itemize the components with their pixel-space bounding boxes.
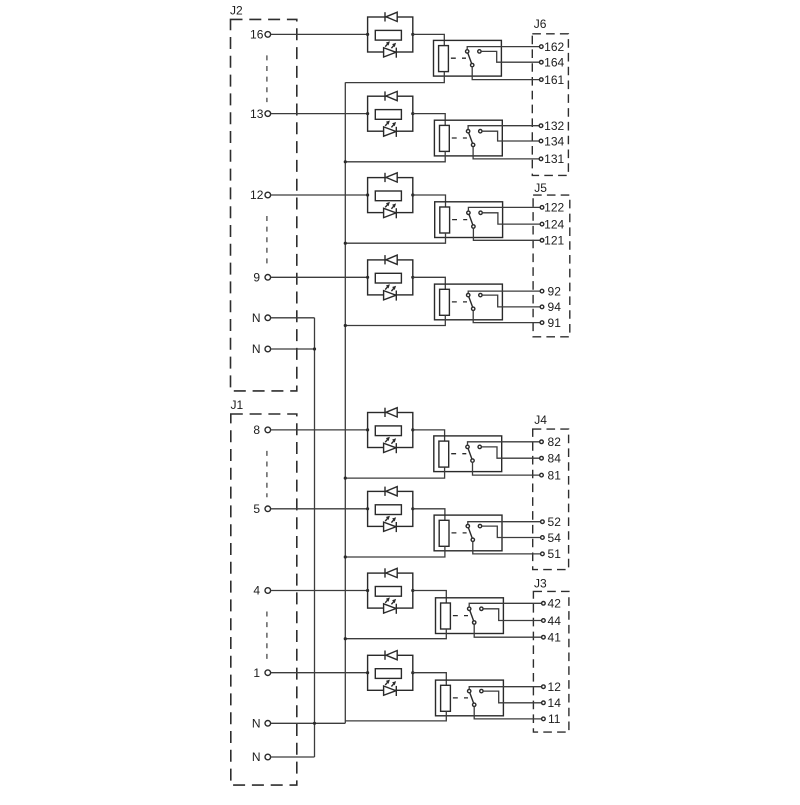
terminal N (J1 upper)	[265, 721, 271, 727]
svg-text:J6: J6	[534, 17, 547, 31]
relay coupling dashed link channel 7	[453, 615, 468, 617]
wire output 164	[481, 51, 539, 62]
svg-text:51: 51	[548, 547, 562, 561]
wire N (J1 upper) to coil-return bus	[271, 722, 346, 724]
dashed omitted-pins stub 12-9	[266, 216, 268, 266]
svg-text:J5: J5	[534, 181, 547, 195]
relay coupling dashed link channel 4	[452, 301, 467, 303]
diode channel 3 (reverse protection)	[385, 173, 397, 182]
relay armature channel 7	[469, 609, 474, 623]
relay coil channel 8	[441, 685, 451, 711]
terminal 8	[265, 427, 271, 433]
input network outline channel 7	[368, 573, 413, 608]
diode channel 4 (reverse protection)	[385, 255, 397, 264]
wire output 91	[473, 311, 540, 323]
resistor channel 6	[375, 505, 401, 515]
relay armature channel 1	[467, 51, 472, 65]
diode channel 2 (reverse protection)	[385, 91, 397, 100]
wire output 94	[482, 295, 540, 307]
terminal 81	[540, 473, 544, 477]
LED channel 3	[384, 202, 397, 218]
svg-text:132: 132	[544, 119, 564, 133]
connector J4	[533, 429, 569, 569]
junction input-right channel 8	[411, 671, 414, 674]
wire output 82	[468, 442, 540, 445]
relay moving contact node channel 6	[471, 538, 474, 541]
connector J5	[533, 195, 570, 337]
relay coil channel 6	[439, 520, 449, 546]
resistor channel 2	[375, 110, 401, 120]
svg-text:1: 1	[253, 666, 260, 680]
terminal 5	[265, 506, 271, 512]
input network outline channel 4	[368, 260, 413, 295]
relay outline channel 6	[434, 515, 502, 551]
svg-text:J1: J1	[231, 398, 244, 412]
LED channel 2	[384, 121, 397, 137]
wire output 11	[474, 707, 541, 719]
wire to relay coil channel 3	[413, 195, 446, 207]
diode channel 8 (reverse protection)	[385, 651, 397, 660]
relay NO contact channel 1	[478, 50, 481, 53]
LED channel 5	[384, 437, 397, 453]
junction input-right channel 1	[411, 33, 414, 36]
svg-text:11: 11	[548, 712, 561, 726]
junction input-left channel 8	[366, 671, 369, 674]
relay coupling dashed link channel 6	[452, 532, 467, 534]
wire input 13	[271, 113, 368, 115]
resistor channel 8	[375, 669, 401, 679]
relay coil channel 5	[439, 441, 449, 467]
relay common contact channel 4	[467, 293, 470, 296]
resistor channel 4	[375, 273, 401, 283]
terminal 16	[265, 32, 271, 38]
wire output 51	[473, 542, 541, 554]
wire output 44	[483, 609, 541, 621]
connector J3	[533, 591, 569, 732]
relay armature channel 3	[468, 213, 473, 227]
input network outline channel 8	[368, 655, 413, 690]
svg-text:124: 124	[544, 217, 564, 231]
junction input-right channel 7	[411, 589, 414, 592]
dashed omitted-pins stub 16-13	[266, 55, 268, 102]
terminal 4	[265, 588, 271, 594]
junction N bus / J1 upper N	[313, 722, 316, 725]
terminal 162	[540, 45, 544, 49]
terminal 13	[265, 111, 271, 117]
junction input-left channel 2	[366, 112, 369, 115]
wire input 12	[271, 194, 368, 196]
input network outline channel 5	[368, 413, 413, 448]
wire output 161	[472, 67, 539, 80]
junction input-right channel 4	[411, 276, 414, 279]
terminal 91	[540, 321, 544, 325]
wire coil return channel 5	[345, 467, 444, 478]
svg-text:J4: J4	[534, 413, 547, 427]
terminal 44	[542, 619, 546, 623]
terminal 92	[540, 289, 544, 293]
input network outline channel 2	[368, 96, 413, 131]
resistor channel 5	[375, 426, 401, 436]
svg-text:162: 162	[544, 40, 564, 54]
terminal 132	[539, 124, 543, 128]
relay coil channel 1	[439, 46, 449, 72]
terminal 14	[542, 701, 546, 705]
relay common contact channel 3	[467, 211, 470, 214]
diode channel 5 (reverse protection)	[385, 408, 397, 417]
wire output 162	[467, 47, 539, 50]
connector J1	[231, 414, 297, 785]
wire output 122	[468, 207, 540, 211]
svg-text:12: 12	[548, 680, 562, 694]
svg-text:4: 4	[253, 584, 260, 598]
junction N bus / J2 lower N	[313, 347, 316, 350]
relay coupling dashed link channel 3	[452, 219, 467, 221]
svg-text:J2: J2	[230, 4, 243, 18]
svg-text:14: 14	[548, 696, 562, 710]
wire coil return channel 2	[345, 151, 445, 161]
LED channel 7	[384, 597, 397, 613]
input network outline channel 1	[368, 17, 413, 52]
wire output 42	[469, 603, 541, 607]
svg-text:82: 82	[548, 435, 562, 449]
LED channel 8	[384, 680, 397, 696]
svg-text:12: 12	[250, 188, 264, 202]
wire input 8	[271, 429, 368, 431]
wire output 134	[482, 131, 539, 141]
input network outline channel 3	[368, 178, 413, 213]
relay common contact channel 2	[466, 130, 469, 133]
relay moving contact node channel 4	[472, 307, 475, 310]
wire coil return channel 8	[345, 711, 446, 721]
input network outline channel 6	[368, 491, 413, 526]
junction input-right channel 5	[411, 428, 414, 431]
svg-text:134: 134	[544, 134, 564, 148]
relay common contact channel 8	[468, 689, 471, 692]
wire coil return channel 6	[345, 546, 445, 557]
dashed omitted-pins stub 4-1	[266, 612, 268, 662]
relay coil channel 2	[440, 125, 450, 151]
svg-text:131: 131	[544, 152, 564, 166]
wire to relay coil channel 8	[413, 673, 447, 686]
relay armature channel 2	[468, 131, 473, 145]
terminal 12	[265, 192, 271, 198]
relay outline channel 3	[435, 202, 503, 238]
svg-text:94: 94	[548, 300, 562, 314]
relay coupling dashed link channel 5	[451, 453, 466, 455]
wire output 124	[482, 213, 540, 224]
wire output 52	[468, 522, 541, 525]
junction coil-return bus channel 6	[344, 555, 347, 558]
terminal 1	[265, 670, 271, 676]
wire to relay coil channel 7	[413, 591, 447, 604]
relay common contact channel 6	[466, 524, 469, 527]
wire input 4	[271, 590, 368, 592]
relay NO contact channel 7	[480, 607, 483, 610]
wire output 12	[469, 687, 541, 690]
svg-text:16: 16	[250, 28, 264, 42]
terminal 122	[540, 206, 544, 210]
relay moving contact node channel 3	[472, 225, 475, 228]
junction input-left channel 3	[366, 193, 369, 196]
relay NO contact channel 2	[479, 130, 482, 133]
relay outline channel 2	[434, 120, 502, 156]
relay outline channel 8	[436, 680, 504, 716]
junction input-left channel 7	[366, 589, 369, 592]
terminal 161	[540, 78, 544, 82]
terminal N (J1 lower)	[265, 754, 271, 760]
junction input-left channel 6	[366, 507, 369, 510]
wire input 5	[271, 508, 368, 510]
wire input 16	[271, 33, 368, 35]
wire output 132	[468, 126, 539, 130]
junction input-left channel 5	[366, 428, 369, 431]
wire to relay coil channel 6	[413, 509, 445, 521]
LED channel 6	[384, 516, 397, 532]
terminal N (J2 upper)	[265, 315, 271, 321]
wire input 1	[271, 672, 368, 674]
junction coil-return bus channel 3	[344, 242, 347, 245]
svg-text:42: 42	[548, 597, 562, 611]
diode channel 7 (reverse protection)	[385, 568, 397, 577]
relay NO contact channel 6	[478, 524, 481, 527]
wire coil return channel 7	[345, 629, 446, 639]
junction input-left channel 4	[366, 276, 369, 279]
LED channel 1	[384, 41, 397, 57]
relay outline channel 4	[435, 284, 503, 320]
wire N (J1 lower)	[271, 756, 315, 758]
diode channel 1 (reverse protection)	[385, 12, 397, 21]
junction coil-return bus channel 5	[344, 477, 347, 480]
relay moving contact node channel 2	[471, 143, 474, 146]
relay armature channel 4	[468, 295, 473, 309]
terminal 121	[540, 239, 544, 243]
svg-text:9: 9	[253, 271, 260, 285]
resistor channel 3	[375, 191, 401, 201]
relay armature channel 8	[469, 691, 474, 705]
junction input-left channel 1	[366, 33, 369, 36]
relay coupling dashed link channel 2	[452, 137, 467, 139]
svg-text:52: 52	[548, 515, 562, 529]
terminal 82	[540, 440, 544, 444]
wire to relay coil channel 4	[413, 277, 446, 289]
wire output 92	[468, 291, 540, 293]
diode channel 6 (reverse protection)	[385, 487, 397, 496]
connector J2	[231, 19, 297, 391]
resistor channel 7	[375, 587, 401, 597]
terminal N (J2 lower)	[265, 346, 271, 352]
wire output 14	[483, 691, 541, 703]
wire output 131	[473, 147, 539, 159]
junction input-right channel 6	[411, 507, 414, 510]
svg-text:84: 84	[548, 452, 562, 466]
wire coil return channel 1	[345, 72, 444, 83]
wire coil-return bus	[344, 82, 346, 723]
svg-text:13: 13	[250, 107, 264, 121]
junction input-right channel 3	[411, 193, 414, 196]
wire output 121	[473, 228, 540, 240]
wire N (J2 upper)	[271, 317, 315, 319]
terminal 84	[540, 456, 544, 460]
dashed omitted-pins stub 8-5	[266, 451, 268, 497]
svg-text:44: 44	[548, 614, 562, 628]
relay NO contact channel 8	[480, 689, 483, 692]
svg-text:81: 81	[548, 468, 562, 482]
wire to relay coil channel 2	[413, 114, 445, 126]
relay outline channel 5	[434, 436, 502, 472]
svg-text:N: N	[252, 717, 261, 731]
wire N bus	[314, 318, 316, 757]
relay moving contact node channel 8	[473, 703, 476, 706]
svg-text:122: 122	[544, 201, 564, 215]
resistor channel 1	[375, 30, 401, 40]
relay common contact channel 7	[468, 607, 471, 610]
wire output 84	[481, 447, 539, 458]
svg-text:91: 91	[548, 316, 562, 330]
terminal 54	[541, 536, 545, 540]
relay NO contact channel 5	[478, 445, 481, 448]
terminal 131	[539, 157, 543, 161]
wire to relay coil channel 5	[413, 430, 445, 441]
terminal 52	[541, 520, 545, 524]
relay outline channel 1	[434, 40, 502, 76]
svg-text:8: 8	[253, 423, 260, 437]
relay coil channel 7	[441, 603, 451, 629]
relay common contact channel 5	[466, 445, 469, 448]
wire output 81	[473, 462, 540, 475]
wire coil return channel 4	[345, 315, 445, 325]
terminal 134	[539, 139, 543, 143]
relay coil channel 3	[440, 207, 450, 233]
svg-text:J3: J3	[534, 576, 547, 590]
relay moving contact node channel 5	[471, 459, 474, 462]
wire output 41	[474, 624, 541, 637]
svg-text:121: 121	[544, 234, 564, 248]
svg-text:164: 164	[544, 56, 564, 70]
relay coupling dashed link channel 1	[451, 57, 466, 59]
wire output 54	[482, 526, 541, 537]
svg-text:54: 54	[548, 531, 562, 545]
relay moving contact node channel 7	[473, 621, 476, 624]
terminal 41	[542, 635, 546, 639]
relay armature channel 5	[468, 447, 473, 461]
relay NO contact channel 4	[479, 293, 482, 296]
junction coil-return bus channel 7	[344, 637, 347, 640]
relay coil channel 4	[440, 289, 450, 315]
terminal 164	[540, 60, 544, 64]
svg-text:41: 41	[548, 631, 562, 645]
wire input 9	[271, 276, 368, 278]
svg-text:92: 92	[548, 284, 562, 298]
svg-text:N: N	[252, 342, 261, 356]
terminal 124	[540, 222, 544, 226]
relay NO contact channel 3	[479, 211, 482, 214]
terminal 51	[541, 552, 545, 556]
svg-text:161: 161	[544, 73, 564, 87]
svg-text:N: N	[252, 750, 261, 764]
connector J6	[532, 34, 568, 176]
junction coil-return bus channel 4	[344, 324, 347, 327]
wire coil return channel 3	[345, 233, 445, 243]
LED channel 4	[384, 284, 397, 300]
wire N (J2 lower)	[271, 348, 315, 350]
terminal 9	[265, 275, 271, 281]
relay coupling dashed link channel 8	[453, 697, 468, 699]
terminal 42	[542, 602, 546, 606]
relay moving contact node channel 1	[471, 63, 474, 66]
junction coil-return bus channel 2	[344, 160, 347, 163]
terminal 12	[542, 685, 546, 689]
terminal 11	[542, 717, 546, 721]
relay outline channel 7	[436, 598, 504, 634]
relay common contact channel 1	[466, 50, 469, 53]
terminal 94	[540, 305, 544, 309]
svg-text:N: N	[252, 311, 261, 325]
relay armature channel 6	[468, 526, 473, 540]
junction input-right channel 2	[411, 112, 414, 115]
svg-text:5: 5	[253, 502, 260, 516]
wire to relay coil channel 1	[413, 34, 445, 45]
